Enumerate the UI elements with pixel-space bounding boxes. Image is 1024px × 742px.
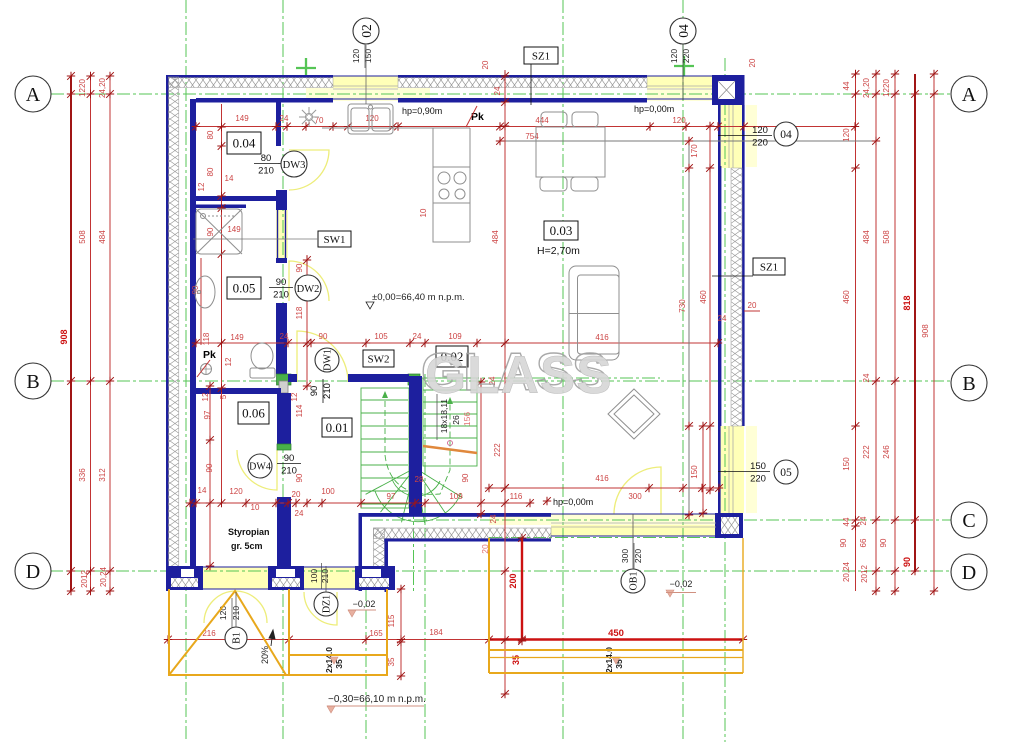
axis circle A right [951, 76, 987, 112]
svg-text:90: 90 [319, 332, 328, 341]
long vertical dim x505 [504, 70, 506, 694]
corner pillar top-right [712, 75, 745, 105]
svg-text:Styropian: Styropian [228, 527, 270, 537]
svg-text:416: 416 [595, 333, 609, 342]
window 05 size 150/220 [746, 461, 770, 485]
svg-text:908: 908 [921, 324, 930, 338]
level mark -0,02 (right) [666, 590, 674, 597]
axis C horizontal [370, 519, 951, 521]
svg-text:24: 24 [280, 332, 289, 341]
svg-text:120: 120 [672, 116, 686, 125]
svg-text:0.01: 0.01 [326, 420, 349, 435]
opening circle OB1 [621, 569, 645, 593]
svg-text:24: 24 [859, 516, 868, 525]
axis circle B left [15, 363, 51, 399]
svg-text:20,24: 20,24 [99, 566, 108, 587]
svg-text:90: 90 [309, 386, 320, 397]
window 04 size 120/220 [748, 125, 772, 149]
bottom wall lower line [384, 539, 551, 542]
svg-text:20,24: 20,24 [842, 561, 851, 582]
svg-text:120: 120 [229, 487, 243, 496]
svg-text:150: 150 [842, 457, 851, 471]
bold dim 450 [489, 638, 743, 641]
axis circle A left [15, 76, 51, 112]
wall between rooms 0.05 / 0.06 [196, 388, 281, 394]
leader B1 [235, 592, 237, 627]
vertical axis x186 [185, 0, 187, 742]
right wall window 120/220 fill [718, 105, 744, 168]
staircase left flight treads [361, 388, 409, 508]
bold vertical dim 200 [521, 538, 523, 641]
svg-text:100: 100 [321, 487, 335, 496]
svg-text:20: 20 [748, 301, 757, 310]
green cross marker axis 04 [674, 56, 694, 76]
svg-text:04: 04 [780, 129, 792, 141]
top exterior wall insulation hatch [168, 78, 333, 88]
porch circle B1 [225, 627, 247, 649]
left exterior wall outer line [166, 75, 169, 591]
svg-text:220: 220 [752, 138, 768, 149]
OB1 opening fill [551, 514, 716, 536]
svg-text:97: 97 [387, 492, 396, 501]
dim line y343 [196, 342, 718, 344]
svg-text:hp=0,90m: hp=0,90m [402, 106, 442, 116]
bottom-left wall pier 3 [355, 566, 395, 590]
svg-text:300: 300 [628, 492, 642, 501]
level mark 2x14 slope [330, 657, 338, 664]
svg-text:24: 24 [489, 514, 498, 523]
DW4 size 90/210 [277, 453, 301, 477]
svg-text:90: 90 [461, 473, 470, 482]
window 02 opening fill [333, 76, 398, 100]
svg-text:90: 90 [205, 463, 214, 472]
green new-wall piece right of DW1 gap [408, 374, 420, 385]
axis B horizontal [51, 380, 951, 382]
svg-text:222: 222 [862, 445, 871, 459]
top exterior wall inner masonry line [196, 98, 333, 103]
bottom wall hatch [374, 528, 552, 539]
entrance opening frame lines [203, 567, 355, 589]
room label 0.06 [238, 402, 269, 424]
floor drain [201, 364, 212, 375]
stairs label leader [436, 394, 438, 440]
axis A horizontal [51, 93, 951, 95]
svg-text:20%: 20% [260, 646, 270, 664]
dim line y488 [489, 487, 719, 489]
svg-text:90: 90 [902, 557, 912, 567]
svg-text:SZ1: SZ1 [760, 261, 778, 273]
dim line y126 [196, 126, 855, 128]
svg-text:14: 14 [198, 486, 207, 495]
staircase winder treads fan [366, 468, 463, 523]
level mark -0,30 [327, 706, 335, 713]
svg-text:105: 105 [374, 332, 388, 341]
svg-text:156: 156 [462, 412, 472, 426]
SW1 internal window fill [276, 210, 288, 258]
svg-text:DW3: DW3 [283, 160, 306, 171]
svg-text:24: 24 [862, 373, 871, 382]
door circle DW2 [295, 275, 321, 301]
svg-text:02: 02 [359, 24, 374, 38]
window 02 frame lines [333, 76, 398, 99]
porch outline B1 [169, 589, 387, 675]
vertical axis x563 [562, 0, 564, 742]
chairs [540, 112, 598, 191]
label SZ1 right [753, 258, 785, 275]
svg-text:184: 184 [429, 628, 443, 637]
dining table [536, 127, 605, 177]
leader OB1 [632, 514, 634, 569]
wall between rooms 0.04 / 0.05 [196, 196, 281, 201]
right wall window 150/220 frame lines [729, 426, 733, 513]
svg-text:116: 116 [510, 492, 523, 501]
vertical dim x401 porch [400, 589, 402, 676]
svg-text:118: 118 [202, 332, 211, 345]
svg-text:B: B [26, 371, 39, 393]
svg-text:818: 818 [902, 295, 912, 310]
leader DZ1 [325, 566, 327, 592]
svg-text:170: 170 [690, 144, 699, 158]
svg-text:460: 460 [842, 290, 851, 304]
svg-text:gr. 5cm: gr. 5cm [231, 541, 263, 551]
level mark -0,02 (left) [348, 610, 356, 617]
svg-text:754: 754 [525, 132, 539, 141]
svg-text:SW2: SW2 [368, 353, 390, 365]
svg-text:150: 150 [690, 465, 699, 479]
svg-text:444: 444 [535, 116, 549, 125]
svg-text:−0,02: −0,02 [353, 599, 376, 609]
svg-text:220: 220 [633, 549, 643, 563]
svg-text:20: 20 [748, 58, 757, 67]
svg-text:484: 484 [862, 230, 871, 244]
green new-wall piece left of DW1 [277, 374, 292, 385]
dimension tick marks [67, 70, 938, 698]
room label 0.01 [322, 418, 352, 437]
partition wall 0.06 right upper [277, 393, 291, 444]
svg-text:1220: 1220 [78, 79, 87, 97]
vertical axis x356 (porch) [365, 566, 367, 742]
label SZ1 top [524, 47, 558, 64]
svg-text:24,20: 24,20 [98, 77, 107, 98]
svg-text:DW4: DW4 [249, 462, 271, 473]
cooker with 4 burners [433, 167, 470, 203]
bottom-left wall pier 1 [166, 566, 203, 590]
svg-text:DZ1: DZ1 [322, 595, 333, 613]
left exterior wall insulation hatch [168, 77, 179, 589]
axis circle 04 top [670, 18, 696, 44]
svg-text:10: 10 [419, 208, 428, 217]
washbasin [195, 276, 215, 308]
vertical dim x481 [480, 382, 482, 514]
green line along OB1 inner face [489, 537, 718, 539]
partition wall P3 (toilet wall) [276, 303, 287, 374]
left dimension block lines [70, 76, 72, 591]
shower side wall [193, 205, 246, 209]
vent flue star symbol [299, 107, 319, 127]
hall top wall stub left of DW1 [288, 374, 297, 382]
svg-text:100: 100 [309, 569, 319, 583]
svg-text:35: 35 [511, 655, 521, 665]
svg-text:35: 35 [387, 657, 396, 666]
door circle DW4 [248, 454, 272, 478]
svg-text:28: 28 [415, 475, 424, 484]
svg-text:109: 109 [449, 492, 463, 501]
svg-text:05: 05 [780, 467, 792, 479]
shower tray [196, 209, 242, 254]
svg-text:GLASS: GLASS [425, 346, 613, 405]
svg-text:120: 120 [842, 128, 851, 142]
kitchen sink [348, 104, 393, 134]
terrace outline [489, 538, 743, 673]
door swing DW3 [289, 150, 329, 190]
svg-text:SZ1: SZ1 [532, 50, 550, 62]
door swing OB1 [614, 467, 661, 514]
svg-text:80: 80 [261, 153, 272, 164]
svg-text:120: 120 [669, 49, 679, 63]
axis circle B right [951, 365, 987, 401]
right exterior wall: inner line [718, 103, 721, 513]
svg-text:12: 12 [290, 392, 299, 401]
svg-text:90: 90 [839, 538, 848, 547]
svg-text:220: 220 [681, 49, 691, 63]
svg-text:SW1: SW1 [324, 234, 346, 246]
svg-text:90: 90 [295, 263, 304, 272]
svg-text:20: 20 [481, 60, 490, 69]
svg-text:20: 20 [292, 490, 301, 499]
svg-text:90: 90 [206, 227, 215, 236]
svg-text:D: D [26, 561, 40, 583]
svg-text:336: 336 [78, 468, 87, 482]
DW3 size 80/210 [254, 153, 278, 177]
svg-text:90: 90 [879, 538, 888, 547]
DW2 size 90/210 [269, 277, 293, 301]
top exterior wall outer line [166, 75, 333, 78]
svg-text:Pk: Pk [203, 349, 216, 361]
axis circle D right [951, 554, 987, 590]
door swing DZ1 [304, 592, 337, 625]
svg-text:12: 12 [197, 182, 206, 191]
svg-text:90: 90 [284, 453, 295, 464]
svg-text:H=2,70m: H=2,70m [537, 245, 580, 257]
interior vertical dim x201 [200, 258, 202, 345]
svg-text:2012: 2012 [80, 570, 89, 588]
hall top wall with SW2 [348, 374, 409, 382]
svg-text:210: 210 [258, 166, 274, 177]
svg-text:hp=0,00m: hp=0,00m [634, 104, 674, 114]
partition wall P2 (between DW3 and SW1) [276, 190, 287, 210]
bottom wall (axis C) top line [359, 513, 552, 517]
svg-text:66: 66 [859, 538, 868, 547]
svg-text:±0,00=66,40 m n.p.m.: ±0,00=66,40 m n.p.m. [372, 292, 465, 303]
svg-text:165: 165 [369, 629, 383, 638]
svg-text:−0,02: −0,02 [670, 579, 693, 589]
svg-text:80: 80 [206, 130, 215, 139]
svg-text:24: 24 [295, 509, 304, 518]
svg-text:80: 80 [206, 167, 215, 176]
label SW1 [318, 231, 351, 247]
green cross marker left window [296, 58, 316, 78]
svg-text:A: A [962, 84, 977, 106]
svg-text:118: 118 [295, 306, 304, 319]
svg-text:OB1: OB1 [629, 572, 640, 591]
svg-text:114: 114 [295, 404, 304, 417]
kitchen counter [322, 128, 470, 242]
svg-text:109: 109 [448, 332, 462, 341]
label SW2 [363, 350, 394, 367]
svg-text:DW2: DW2 [297, 284, 320, 295]
vertical axis x425 [424, 374, 426, 742]
svg-text:416: 416 [595, 474, 609, 483]
svg-text:5: 5 [219, 394, 228, 399]
svg-text:484: 484 [98, 230, 107, 244]
svg-text:1220: 1220 [882, 79, 891, 97]
svg-text:484: 484 [491, 230, 500, 244]
left exterior wall inner masonry line [190, 99, 196, 566]
svg-text:300: 300 [620, 549, 630, 563]
axis D horizontal [50, 570, 951, 572]
staircase walking line (dashed green) [385, 392, 450, 494]
door circle DW3 [281, 151, 307, 177]
right wall window 150/220 fill [718, 426, 744, 513]
svg-text:A: A [26, 84, 41, 106]
vertical dim x710 [709, 126, 711, 490]
axis circle C right [951, 502, 987, 538]
green new-wall piece above DW4 [277, 444, 291, 450]
toilet [250, 343, 275, 378]
window circle 05 right [774, 460, 798, 484]
interior vertical dim x307 [306, 255, 308, 390]
svg-text:149: 149 [227, 225, 241, 234]
svg-text:D: D [962, 562, 976, 584]
right dimension block lines [855, 74, 857, 591]
stairwell wall [409, 376, 422, 514]
svg-text:0.04: 0.04 [233, 136, 256, 151]
porch gable triangle [169, 591, 286, 675]
svg-text:DW1: DW1 [323, 349, 334, 371]
svg-text:10: 10 [251, 503, 260, 512]
svg-text:220: 220 [750, 474, 766, 485]
door swing DW4 [237, 450, 277, 490]
door swing DW2 [289, 261, 329, 301]
right exterior wall segment A (hatched) [718, 105, 745, 426]
svg-text:12: 12 [224, 357, 233, 366]
svg-text:hp=0,00m: hp=0,00m [553, 497, 593, 507]
svg-text:24: 24 [718, 314, 727, 323]
svg-text:0.03: 0.03 [550, 223, 573, 238]
svg-text:04: 04 [676, 24, 691, 38]
green line hall top wall axis [422, 377, 660, 379]
OB1 opening frame lines [551, 514, 716, 536]
svg-text:120: 120 [752, 125, 768, 136]
svg-text:C: C [962, 510, 975, 532]
svg-text:44: 44 [842, 517, 851, 526]
door swing DW1 [297, 331, 348, 382]
svg-text:210: 210 [273, 290, 289, 301]
svg-text:24: 24 [280, 114, 289, 123]
leader from circle 02 to sink [365, 45, 367, 104]
SW1 internal window lines [278, 210, 286, 258]
dim line y141 (gray) [500, 140, 876, 142]
vertical axis 04 x683 [682, 0, 684, 742]
staircase right flight treads [423, 378, 477, 466]
interior vertical dim x210 [209, 386, 211, 566]
vertical dim x689 (gray) [688, 141, 690, 515]
svg-text:14: 14 [225, 174, 234, 183]
partition wall P1 (0.04 right, above DW3) [276, 100, 281, 146]
svg-text:24: 24 [413, 332, 422, 341]
svg-text:210: 210 [322, 383, 333, 399]
gray existing wall piece (0.06 right top) [279, 381, 288, 393]
sofa [569, 266, 619, 360]
svg-text:222: 222 [493, 443, 502, 457]
svg-text:508: 508 [78, 230, 87, 244]
svg-text:B1: B1 [232, 632, 243, 644]
right wall window 120/220 frame lines [729, 105, 733, 168]
coffee table (rotated) [608, 389, 660, 439]
svg-text:0.06: 0.06 [242, 406, 265, 421]
door circle DZ1 [314, 592, 338, 616]
window 04 opening fill [647, 76, 712, 100]
svg-text:0.05: 0.05 [233, 281, 256, 296]
svg-text:2012: 2012 [860, 565, 869, 583]
axis circle D left [15, 553, 51, 589]
svg-text:24,20: 24,20 [862, 77, 871, 98]
window 04 frame lines [647, 76, 712, 99]
vertical axis x413 (stair wall) [413, 374, 415, 591]
svg-text:200: 200 [508, 573, 518, 588]
entrance opening fills [203, 567, 268, 589]
watermark GLASS [421, 343, 613, 405]
svg-text:26: 26 [451, 415, 461, 425]
svg-text:24: 24 [493, 86, 502, 95]
svg-text:312: 312 [98, 468, 107, 482]
dim line y503 [190, 502, 530, 504]
svg-text:44: 44 [842, 81, 851, 90]
vertical axis right wall x725 [724, 58, 726, 742]
corner pillar bottom-right [715, 513, 743, 538]
svg-text:149: 149 [230, 333, 244, 342]
svg-text:97: 97 [203, 410, 212, 419]
door circle DW1 [315, 348, 339, 372]
interior vertical dim x226 [221, 104, 223, 503]
svg-text:730: 730 [678, 299, 687, 313]
window circle 04 right [774, 122, 798, 146]
bottom-left wall pier 2 [268, 566, 304, 590]
stair break line (orange) [423, 446, 477, 453]
dim line y639 (ground) [168, 639, 489, 641]
step wall piece down to axis D [359, 513, 389, 592]
axis circle 02 [353, 18, 379, 44]
room label 0.02 [436, 346, 468, 367]
vertical dim x703 window 05 [702, 426, 704, 513]
room label 0.03 [544, 221, 578, 240]
door swings B1 (double) [204, 591, 236, 623]
svg-text:210: 210 [281, 466, 297, 477]
svg-text:149: 149 [235, 114, 249, 123]
svg-text:B: B [962, 373, 975, 395]
svg-text:508: 508 [882, 230, 891, 244]
svg-text:−0,30=66,10 m n.p.m.: −0,30=66,10 m n.p.m. [328, 694, 426, 705]
svg-text:150: 150 [363, 49, 373, 63]
vertical axis x283 [282, 0, 284, 742]
svg-text:908: 908 [59, 329, 69, 344]
room label 0.04 [227, 132, 261, 154]
svg-text:460: 460 [699, 290, 708, 304]
svg-text:90: 90 [276, 277, 287, 288]
partition wall P5 (0.06 right below DW4) [277, 497, 291, 566]
partition wall below SW1 [276, 258, 287, 263]
svg-text:12: 12 [201, 392, 210, 401]
